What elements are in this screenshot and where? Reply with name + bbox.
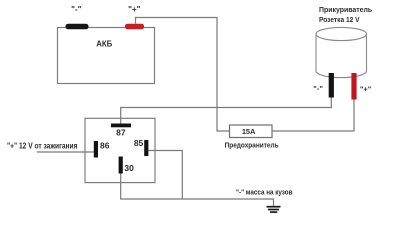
svg-text:"+" 12 V от зажигания: "+" 12 V от зажигания xyxy=(7,141,78,151)
svg-text:"+": "+" xyxy=(128,5,140,14)
svg-text:15A: 15A xyxy=(242,127,256,136)
svg-text:"-" масса на кузов: "-" масса на кузов xyxy=(236,187,293,196)
svg-text:Розетка 12 V: Розетка 12 V xyxy=(319,15,360,24)
svg-text:Предохранитель: Предохранитель xyxy=(225,140,279,149)
svg-text:"-": "-" xyxy=(313,84,323,93)
svg-text:30: 30 xyxy=(124,163,134,173)
svg-text:"+": "+" xyxy=(360,85,372,94)
svg-text:87: 87 xyxy=(116,128,126,138)
svg-text:Прикуриватель: Прикуриватель xyxy=(319,5,373,14)
svg-text:АКБ: АКБ xyxy=(96,39,112,48)
svg-text:"-": "-" xyxy=(71,5,81,14)
svg-text:86: 86 xyxy=(100,141,110,151)
svg-text:85: 85 xyxy=(134,138,144,148)
